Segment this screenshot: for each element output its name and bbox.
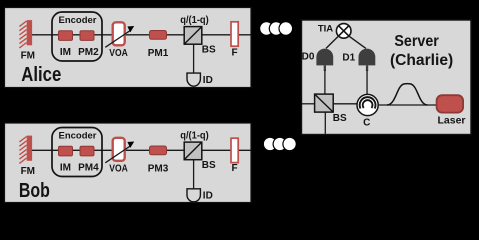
svg-text:D0: D0 bbox=[302, 52, 315, 63]
wire: mixer to D0 bbox=[326, 36, 339, 49]
wire: Bob main optical line bbox=[30, 149, 251, 151]
phase modulator PM2 (Alice) bbox=[80, 31, 94, 41]
svg-text:BS: BS bbox=[202, 160, 216, 171]
phase modulator PM3 (Bob) bbox=[150, 146, 167, 155]
svg-text:Encoder: Encoder bbox=[58, 15, 96, 26]
laser bbox=[437, 95, 464, 112]
wire: BS (server) to Bob port bbox=[324, 112, 326, 134]
svg-text:q/(1-q): q/(1-q) bbox=[180, 15, 209, 26]
filter F (Bob) bbox=[231, 138, 238, 162]
svg-text:D1: D1 bbox=[342, 53, 355, 64]
filter F (Alice) bbox=[231, 22, 238, 46]
faraday mirror FM (Bob): hatching bbox=[19, 137, 26, 164]
svg-text:Alice: Alice bbox=[21, 64, 61, 86]
wire: D0 to BS (server) bbox=[324, 70, 326, 94]
Bob station box bbox=[5, 123, 252, 203]
svg-text:PM1: PM1 bbox=[148, 48, 169, 59]
circulator C bbox=[357, 94, 378, 115]
svg-text:PM4: PM4 bbox=[78, 162, 99, 173]
detector D0 bbox=[316, 49, 333, 71]
svg-text:PM3: PM3 bbox=[148, 163, 169, 174]
wire: D1 to circulator bbox=[366, 70, 368, 95]
TIA mixer symbol (circled X) bbox=[336, 24, 351, 39]
svg-text:ID: ID bbox=[203, 191, 213, 202]
variable optical attenuator VOA (Alice) bbox=[113, 22, 125, 45]
wire: Alice BS to detector bbox=[193, 44, 195, 74]
Alice station box bbox=[5, 8, 252, 88]
svg-text:BS: BS bbox=[202, 44, 216, 55]
wire: Alice main optical line bbox=[30, 34, 251, 36]
wire: mixer to D1 bbox=[349, 36, 366, 49]
svg-text:(Charlie): (Charlie) bbox=[390, 52, 453, 69]
fiber ellipsis Alice-Charlie bbox=[260, 22, 293, 36]
fiber ellipsis Bob-Charlie bbox=[263, 137, 296, 150]
detector D1 bbox=[359, 49, 376, 71]
svg-text:q/(1-q): q/(1-q) bbox=[180, 130, 209, 141]
optical pulse shape bbox=[387, 84, 428, 105]
beam splitter BS (Alice) bbox=[184, 27, 202, 45]
svg-text:FM: FM bbox=[21, 166, 35, 177]
svg-text:Laser: Laser bbox=[437, 115, 465, 127]
svg-text:VOA: VOA bbox=[109, 163, 128, 174]
faraday mirror FM (Alice): mirror bar bbox=[27, 20, 32, 45]
svg-text:Encoder: Encoder bbox=[58, 131, 96, 142]
svg-text:TIA: TIA bbox=[318, 24, 333, 35]
svg-text:VOA: VOA bbox=[109, 48, 128, 59]
svg-text:ID: ID bbox=[203, 75, 213, 86]
beam splitter BS (server) bbox=[315, 94, 334, 112]
svg-text:IM: IM bbox=[60, 47, 71, 58]
svg-text:PM2: PM2 bbox=[78, 47, 99, 58]
intensity modulator IM (Alice) bbox=[59, 31, 73, 41]
detector ID (Bob) bbox=[187, 189, 200, 202]
encoder box (Bob) bbox=[52, 128, 102, 177]
svg-text:Bob: Bob bbox=[19, 180, 50, 202]
svg-text:Server: Server bbox=[394, 33, 439, 50]
svg-text:F: F bbox=[232, 163, 238, 174]
beam splitter BS (Bob) bbox=[184, 142, 202, 160]
wire: BS (server) to circulator bbox=[333, 103, 357, 105]
detector ID (Alice) bbox=[187, 73, 200, 86]
svg-text:F: F bbox=[232, 47, 238, 58]
encoder box (Alice) bbox=[52, 12, 102, 61]
faraday mirror FM (Bob): mirror bar bbox=[27, 136, 32, 161]
svg-text:IM: IM bbox=[60, 162, 71, 173]
wire: Alice port to BS (server) bbox=[302, 103, 315, 105]
VOA arrow (Bob) bbox=[105, 142, 134, 163]
intensity modulator IM (Bob) bbox=[59, 146, 73, 156]
VOA arrow (Alice) bbox=[105, 26, 134, 47]
svg-text:BS: BS bbox=[333, 113, 347, 124]
wire: circulator to laser bbox=[378, 104, 436, 106]
faraday mirror FM (Alice): hatching bbox=[19, 21, 26, 48]
svg-text:C: C bbox=[363, 117, 370, 128]
phase modulator PM1 (Alice) bbox=[150, 31, 167, 40]
phase modulator PM4 (Bob) bbox=[80, 146, 94, 156]
Server (Charlie) station box bbox=[302, 20, 472, 135]
wire: Bob BS to detector bbox=[193, 160, 195, 190]
variable optical attenuator VOA (Bob) bbox=[113, 138, 125, 161]
svg-text:FM: FM bbox=[21, 51, 35, 62]
